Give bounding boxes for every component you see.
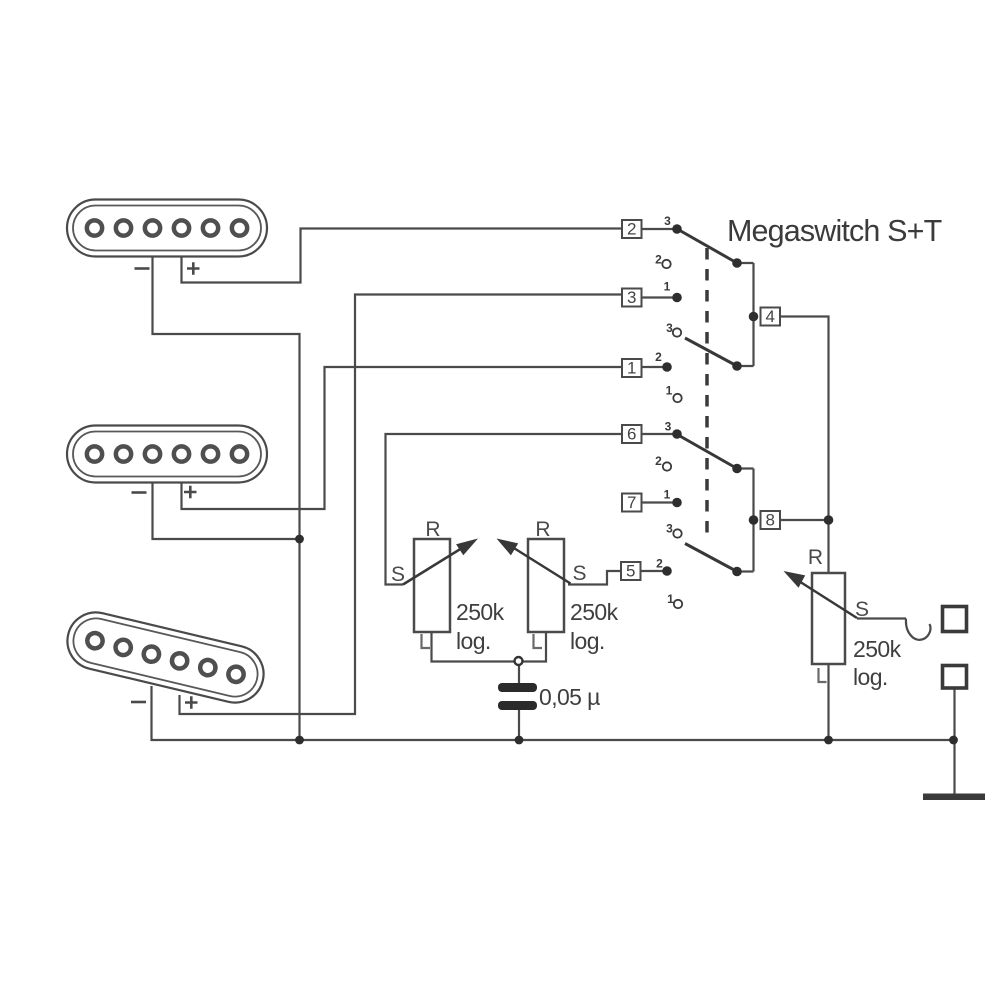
svg-text:4: 4 xyxy=(765,307,774,326)
svg-text:2: 2 xyxy=(656,557,663,571)
svg-text:S: S xyxy=(391,563,405,586)
svg-text:3: 3 xyxy=(627,288,636,307)
svg-text:2: 2 xyxy=(627,220,636,239)
svg-text:8: 8 xyxy=(765,511,774,530)
svg-text:250k: 250k xyxy=(570,599,619,625)
svg-text:1: 1 xyxy=(664,488,671,502)
svg-text:S: S xyxy=(572,562,586,585)
svg-text:1: 1 xyxy=(666,384,673,398)
svg-text:R: R xyxy=(535,518,550,541)
svg-text:3: 3 xyxy=(664,214,671,228)
svg-text:log.: log. xyxy=(570,628,605,654)
svg-text:Megaswitch S+T: Megaswitch S+T xyxy=(727,214,942,248)
svg-text:5: 5 xyxy=(626,562,635,581)
svg-text:log.: log. xyxy=(456,628,491,654)
svg-text:2: 2 xyxy=(655,350,662,364)
svg-text:1: 1 xyxy=(664,280,671,294)
svg-text:7: 7 xyxy=(627,493,636,512)
svg-text:1: 1 xyxy=(627,359,636,378)
svg-text:R: R xyxy=(425,518,440,541)
svg-text:250k: 250k xyxy=(456,599,505,625)
svg-text:3: 3 xyxy=(665,420,672,434)
svg-text:6: 6 xyxy=(627,425,636,444)
svg-text:3: 3 xyxy=(666,522,673,536)
svg-text:S: S xyxy=(855,598,869,621)
svg-text:2: 2 xyxy=(655,253,662,267)
svg-text:250k: 250k xyxy=(853,636,902,662)
svg-text:R: R xyxy=(808,546,823,569)
svg-text:log.: log. xyxy=(853,664,888,690)
svg-text:2: 2 xyxy=(655,454,662,468)
svg-text:0,05 µ: 0,05 µ xyxy=(539,684,600,710)
